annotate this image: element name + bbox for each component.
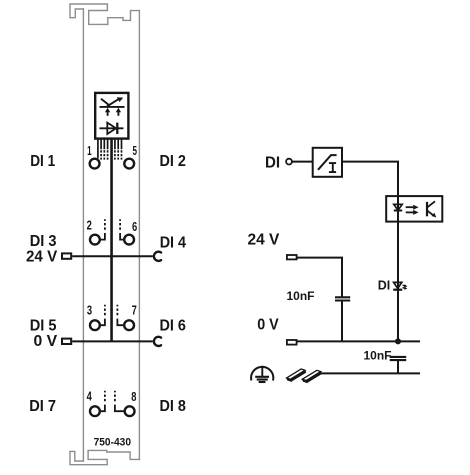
pin 8 spring contact: [115, 391, 124, 411]
0V terminal square right: [287, 340, 297, 345]
phototransistor: [426, 202, 428, 216]
DIN rail symbol: [287, 369, 322, 383]
optocoupler light arrow 2: [406, 211, 415, 213]
svg-text:750-430: 750-430: [94, 437, 131, 449]
module right edge: [138, 11, 140, 460]
wire through optocoupler down to node: [397, 196, 399, 341]
svg-text:1: 1: [87, 144, 92, 158]
pin 2 spring contact: [101, 219, 105, 239]
svg-text:DI 8: DI 8: [160, 398, 186, 415]
svg-text:4: 4: [87, 390, 92, 404]
DI input terminal: [286, 159, 292, 165]
capacitor C2: [390, 357, 407, 360]
LED symbol top line: [100, 106, 125, 108]
input filter box U1: [313, 148, 342, 177]
svg-text:24 V: 24 V: [26, 249, 58, 266]
capacitor C1: [335, 297, 350, 300]
24V terminal square: [62, 253, 71, 258]
status LED emission arrows: [403, 284, 406, 287]
svg-text:10nF: 10nF: [287, 289, 315, 303]
svg-text:3: 3: [87, 304, 92, 318]
optocoupler LED bar: [394, 210, 402, 212]
wire C2 to ground line: [397, 360, 399, 373]
svg-text:0 V: 0 V: [34, 333, 58, 350]
wire C1 to 0V line: [341, 301, 343, 342]
module bottom profile: [70, 450, 139, 464]
svg-text:DI 1: DI 1: [30, 153, 55, 170]
pin 5 clamp: [124, 159, 134, 169]
diode cathode bar: [116, 123, 118, 134]
0V hook contact: [154, 337, 161, 346]
filter I symbol: [329, 163, 336, 172]
center bus wire: [110, 139, 113, 342]
0V terminal square: [62, 339, 71, 344]
module top profile: [70, 4, 139, 24]
filter ramp symbol: [318, 155, 337, 170]
LED symbol up arrow 1: [107, 111, 109, 116]
optocoupler LED triangle: [394, 204, 402, 210]
svg-text:10nF: 10nF: [364, 348, 392, 362]
pin 3 spring contact: [101, 305, 105, 325]
status LED bar: [393, 289, 402, 291]
diode symbol line: [100, 127, 124, 129]
svg-text:DI 6: DI 6: [160, 317, 186, 334]
ground line: [320, 372, 421, 374]
svg-text:2: 2: [87, 218, 92, 232]
svg-text:DI: DI: [265, 155, 280, 172]
pin 2 clamp: [90, 235, 100, 245]
diode triangle: [107, 123, 116, 134]
svg-text:24 V: 24 V: [248, 232, 280, 249]
24V hook contact: [154, 252, 161, 261]
pin 7 clamp: [124, 320, 134, 330]
24V terminal square right: [287, 255, 297, 259]
LED indicator box U-LED: [95, 93, 128, 139]
wire to pin1: [97, 139, 99, 159]
ground (functional earth): [251, 366, 273, 382]
wire terminal to filter box: [292, 161, 313, 163]
optocoupler light arrow 1: [406, 206, 415, 208]
LED symbol up arrow 2: [117, 111, 119, 116]
LED symbol slash arrow: [107, 99, 120, 107]
svg-text:5: 5: [133, 144, 138, 158]
svg-text:8: 8: [131, 390, 136, 404]
svg-text:DI 3: DI 3: [30, 233, 57, 250]
wire 24V to capacitor C1: [297, 258, 342, 298]
svg-text:7: 7: [132, 304, 137, 318]
pin comb under LED box: [98, 139, 122, 160]
node junction dot: [395, 338, 401, 344]
svg-text:DI 2: DI 2: [160, 153, 186, 170]
svg-text:DI 5: DI 5: [30, 317, 57, 334]
24V field wire: [72, 255, 153, 257]
svg-text:DI 7: DI 7: [29, 398, 56, 415]
wire filter box to optocoupler: [342, 162, 398, 197]
svg-text:DI: DI: [378, 277, 391, 292]
status LED triangle: [394, 282, 402, 288]
LED symbol backslash ray: [101, 99, 110, 106]
svg-text:DI 4: DI 4: [160, 234, 186, 251]
svg-text:6: 6: [132, 220, 137, 234]
module left edge: [82, 9, 84, 461]
pin 6 spring contact: [120, 219, 123, 239]
pin 4 spring contact: [101, 391, 105, 411]
pin 8 clamp: [125, 406, 135, 416]
svg-text:0 V: 0 V: [257, 317, 279, 334]
0V field wire: [72, 340, 153, 342]
0V line: [297, 340, 420, 342]
optocoupler box U2: [386, 196, 442, 222]
pin 1 clamp: [90, 159, 100, 169]
module 750-430 outline: [70, 4, 139, 465]
pin 7 spring contact: [117, 305, 123, 325]
pin 6 clamp: [124, 235, 134, 245]
pin 4 clamp: [90, 406, 100, 416]
pin 3 clamp: [90, 320, 100, 330]
